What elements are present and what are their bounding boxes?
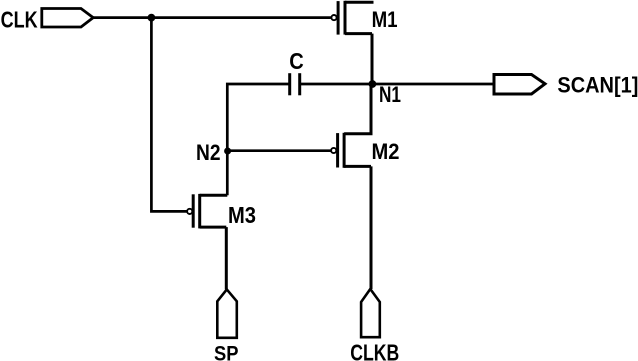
wire N1 down to M2 drain: [344, 84, 371, 134]
port CLK: [42, 9, 93, 28]
wire M3 source to SP port: [225, 227, 228, 289]
svg-text:CLKB: CLKB: [350, 340, 399, 361]
wire N2 to M2 gate: [227, 149, 330, 152]
transistor M1: [331, 1, 373, 35]
svg-text:SP: SP: [214, 342, 239, 361]
port SP: [217, 289, 237, 337]
svg-text:N1: N1: [379, 82, 401, 107]
junction dot CLK node: [148, 14, 156, 22]
svg-text:N2: N2: [196, 140, 221, 165]
wire capacitor to N1: [300, 83, 372, 86]
port CLKB: [361, 289, 380, 337]
capacitor C: [290, 73, 300, 95]
port SCAN[1]: [494, 75, 545, 95]
wire junction to M1 gate: [151, 16, 330, 19]
node N2: [224, 148, 231, 155]
svg-text:M1: M1: [372, 7, 398, 32]
node N1: [369, 80, 377, 88]
svg-text:M2: M2: [372, 139, 400, 164]
wire N1 to SCAN port: [372, 83, 494, 86]
svg-text:C: C: [289, 48, 304, 74]
transistor M3: [187, 194, 227, 229]
svg-text:SCAN[1]: SCAN[1]: [557, 73, 638, 98]
wire junction down to M3 gate: [151, 18, 186, 212]
svg-text:M3: M3: [228, 202, 256, 228]
wire CLK port to junction: [93, 16, 151, 19]
transistor M2: [331, 133, 371, 168]
wire N2 branch up and to capacitor: [227, 84, 289, 195]
wire M1 drain to N1: [371, 34, 374, 84]
svg-text:CLK: CLK: [1, 6, 38, 32]
wire M2 source to CLKB port: [370, 166, 373, 289]
